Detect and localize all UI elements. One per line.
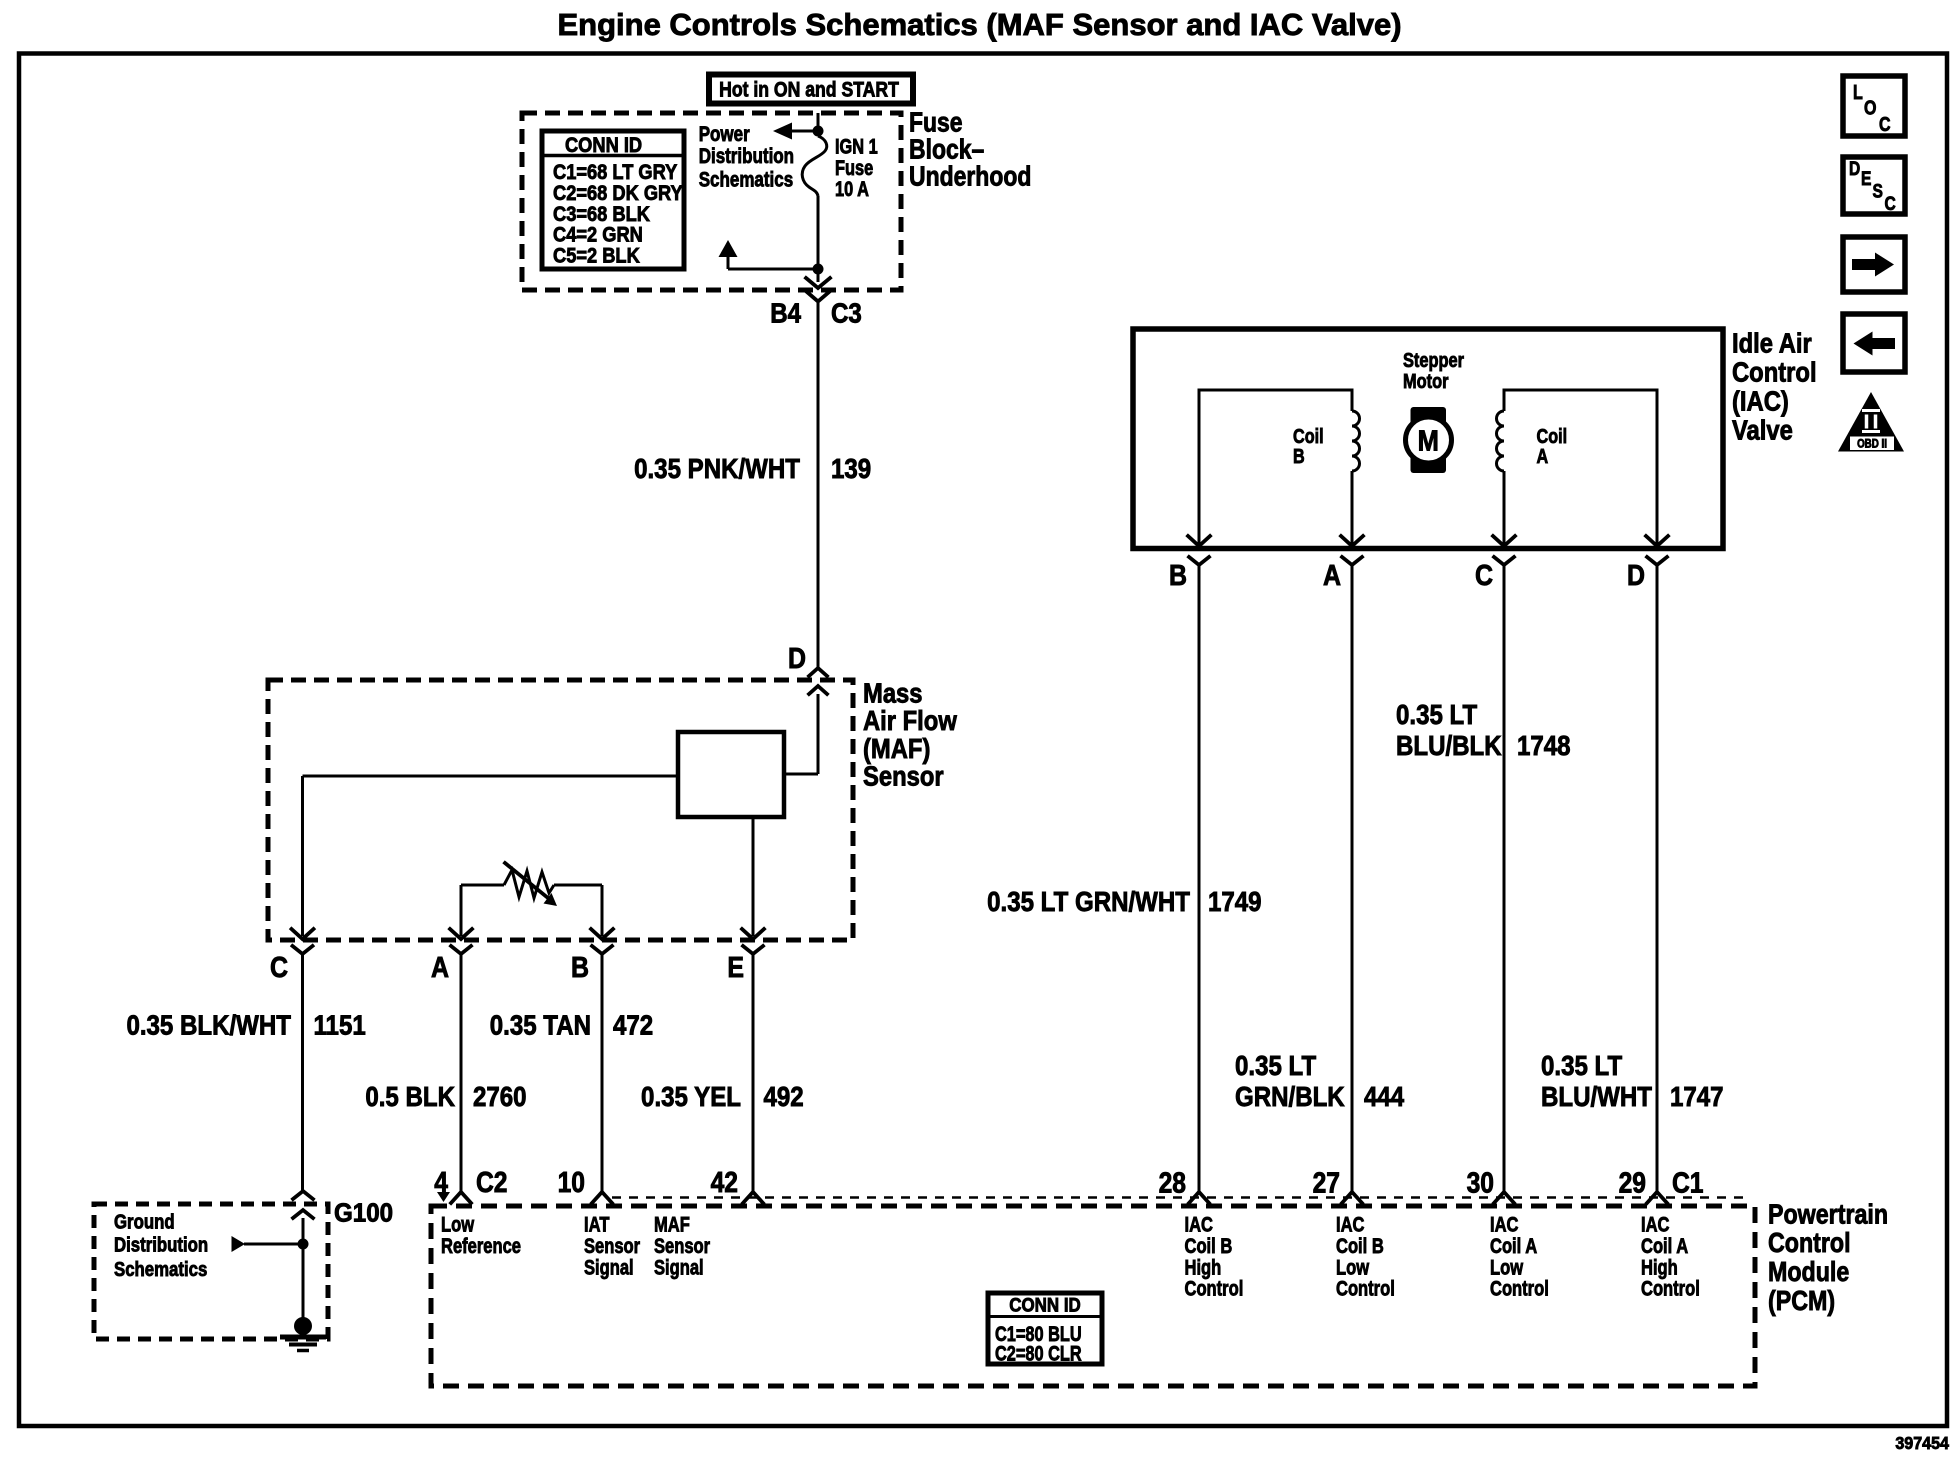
svg-text:1749: 1749: [1208, 885, 1262, 917]
svg-text:OBD II: OBD II: [1857, 438, 1887, 451]
svg-text:Reference: Reference: [441, 1235, 521, 1259]
svg-text:BLU/WHT: BLU/WHT: [1541, 1080, 1652, 1112]
svg-text:IAC: IAC: [1490, 1214, 1519, 1238]
svg-text:Signal: Signal: [654, 1256, 704, 1280]
svg-text:492: 492: [764, 1080, 804, 1112]
svg-text:IAC: IAC: [1336, 1214, 1365, 1238]
svg-text:Idle Air: Idle Air: [1732, 327, 1812, 359]
svg-text:(IAC): (IAC): [1732, 385, 1789, 417]
svg-text:Hot in ON and START: Hot in ON and START: [719, 78, 899, 102]
svg-text:C: C: [1879, 113, 1891, 135]
svg-text:E: E: [1861, 167, 1872, 189]
svg-text:L: L: [1853, 81, 1863, 103]
svg-text:Low: Low: [441, 1214, 474, 1238]
svg-text:Sensor: Sensor: [654, 1235, 711, 1259]
svg-text:Coil B: Coil B: [1185, 1235, 1233, 1259]
svg-text:Coil A: Coil A: [1490, 1235, 1537, 1259]
svg-text:28: 28: [1159, 1167, 1186, 1199]
svg-text:Schematics: Schematics: [699, 169, 793, 192]
svg-text:29: 29: [1619, 1167, 1646, 1199]
svg-text:(PCM): (PCM): [1768, 1286, 1835, 1316]
svg-text:B: B: [1169, 559, 1187, 591]
svg-text:0.35 YEL: 0.35 YEL: [641, 1080, 741, 1112]
svg-text:Control: Control: [1185, 1278, 1244, 1302]
svg-text:S: S: [1873, 180, 1884, 202]
svg-text:Low: Low: [1490, 1256, 1523, 1280]
svg-text:BLU/BLK: BLU/BLK: [1396, 729, 1502, 761]
svg-text:Control: Control: [1490, 1278, 1549, 1302]
svg-text:B4: B4: [770, 297, 801, 329]
svg-text:Signal: Signal: [584, 1256, 634, 1280]
svg-text:139: 139: [831, 452, 871, 484]
svg-text:397454: 397454: [1895, 1433, 1949, 1453]
svg-text:0.35 LT: 0.35 LT: [1396, 698, 1477, 730]
svg-text:C2: C2: [476, 1166, 508, 1198]
svg-text:IAC: IAC: [1641, 1214, 1670, 1238]
svg-text:Coil B: Coil B: [1336, 1235, 1384, 1259]
svg-text:Low: Low: [1336, 1256, 1369, 1280]
svg-text:IAT: IAT: [584, 1214, 610, 1238]
svg-text:Fuse: Fuse: [835, 156, 873, 179]
svg-text:C2=80 CLR: C2=80 CLR: [995, 1342, 1082, 1366]
svg-text:B: B: [571, 951, 589, 983]
svg-text:GRN/BLK: GRN/BLK: [1235, 1080, 1345, 1112]
svg-text:Control: Control: [1768, 1228, 1851, 1258]
svg-text:Control: Control: [1336, 1278, 1395, 1302]
svg-text:10 A: 10 A: [835, 177, 869, 200]
svg-text:D: D: [788, 642, 806, 674]
svg-text:G100: G100: [334, 1199, 393, 1228]
svg-text:Control: Control: [1732, 356, 1817, 388]
svg-text:0.35 TAN: 0.35 TAN: [490, 1009, 591, 1041]
svg-text:Schematics: Schematics: [114, 1257, 207, 1280]
svg-text:C: C: [1475, 559, 1493, 591]
svg-text:1747: 1747: [1670, 1080, 1724, 1112]
svg-text:E: E: [727, 951, 744, 983]
svg-text:0.35 BLK/WHT: 0.35 BLK/WHT: [126, 1009, 291, 1041]
svg-text:CONN ID: CONN ID: [565, 134, 642, 157]
svg-text:D: D: [1627, 559, 1645, 591]
svg-text:CONN ID: CONN ID: [1009, 1293, 1081, 1315]
svg-text:472: 472: [613, 1009, 653, 1041]
svg-text:Underhood: Underhood: [909, 161, 1031, 192]
svg-text:A: A: [1537, 444, 1549, 467]
svg-text:2760: 2760: [473, 1080, 527, 1112]
svg-text:Sensor: Sensor: [863, 760, 944, 792]
svg-text:Powertrain: Powertrain: [1768, 1200, 1888, 1230]
svg-text:C: C: [270, 951, 288, 983]
svg-text:0.35 LT GRN/WHT: 0.35 LT GRN/WHT: [987, 885, 1190, 917]
svg-text:Module: Module: [1768, 1257, 1849, 1287]
svg-text:Motor: Motor: [1403, 369, 1449, 392]
svg-text:B: B: [1293, 444, 1305, 467]
svg-text:42: 42: [711, 1166, 738, 1198]
svg-text:0.35 LT: 0.35 LT: [1541, 1049, 1622, 1081]
svg-text:Ground: Ground: [114, 1210, 175, 1233]
svg-text:M: M: [1418, 424, 1439, 457]
svg-text:A: A: [431, 951, 449, 983]
svg-text:C1: C1: [1672, 1167, 1704, 1199]
svg-text:MAF: MAF: [654, 1214, 690, 1238]
svg-text:Control: Control: [1641, 1278, 1700, 1302]
svg-text:High: High: [1641, 1256, 1678, 1280]
svg-text:1151: 1151: [314, 1009, 366, 1041]
svg-text:Sensor: Sensor: [584, 1235, 641, 1259]
svg-text:C: C: [1885, 192, 1896, 214]
svg-text:C3: C3: [831, 297, 862, 329]
svg-text:IAC: IAC: [1185, 1214, 1214, 1238]
svg-text:0.5 BLK: 0.5 BLK: [365, 1080, 455, 1112]
svg-text:A: A: [1323, 559, 1341, 591]
svg-text:D: D: [1849, 157, 1860, 179]
svg-text:444: 444: [1364, 1080, 1405, 1112]
svg-text:Engine Controls Schematics (MA: Engine Controls Schematics (MAF Sensor a…: [557, 7, 1401, 42]
svg-text:C5=2 BLK: C5=2 BLK: [553, 244, 640, 268]
svg-text:Distribution: Distribution: [699, 145, 794, 168]
svg-text:O: O: [1864, 97, 1876, 119]
svg-text:High: High: [1185, 1256, 1222, 1280]
svg-text:Valve: Valve: [1732, 414, 1793, 446]
svg-text:0.35 PNK/WHT: 0.35 PNK/WHT: [634, 452, 800, 484]
svg-text:Coil A: Coil A: [1641, 1235, 1688, 1259]
svg-text:Distribution: Distribution: [114, 1233, 208, 1256]
svg-text:30: 30: [1467, 1167, 1494, 1199]
svg-text:27: 27: [1313, 1167, 1340, 1199]
svg-text:Power: Power: [699, 123, 751, 146]
svg-text:0.35 LT: 0.35 LT: [1235, 1049, 1316, 1081]
svg-text:IGN 1: IGN 1: [835, 135, 878, 158]
svg-text:1748: 1748: [1517, 729, 1571, 761]
svg-text:Stepper: Stepper: [1403, 348, 1464, 371]
svg-text:10: 10: [558, 1166, 585, 1198]
svg-text:4: 4: [434, 1166, 448, 1198]
